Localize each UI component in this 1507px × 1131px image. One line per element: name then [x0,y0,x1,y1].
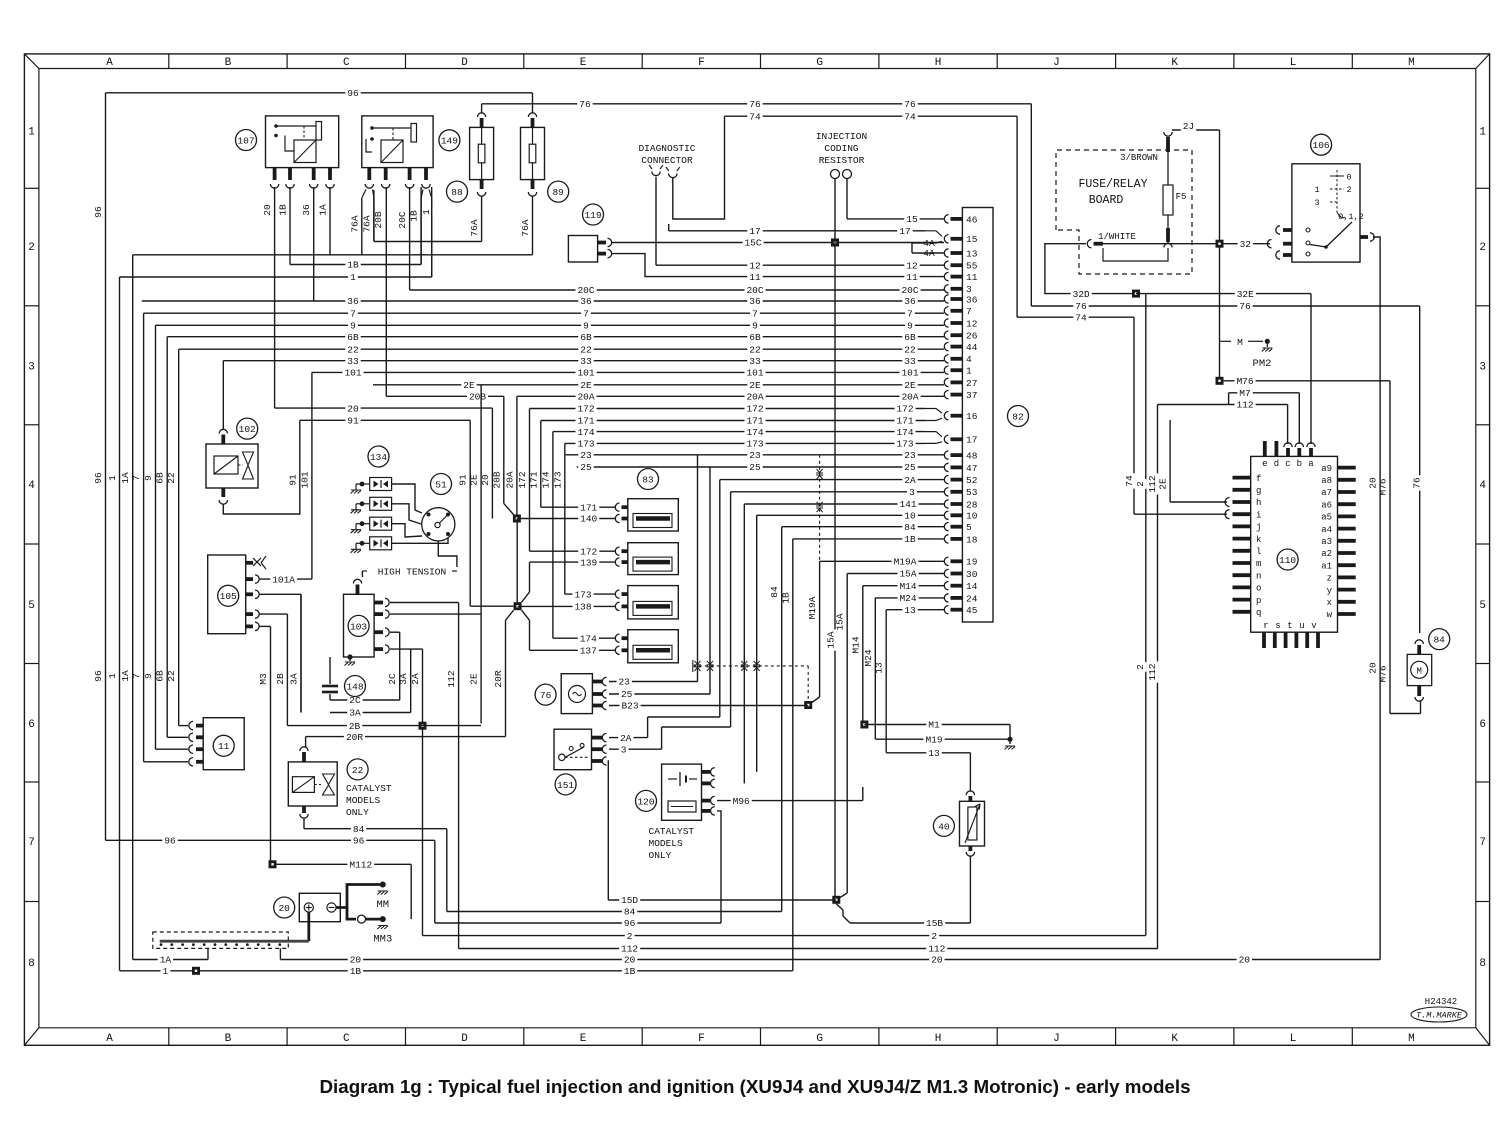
svg-text:CATALYST: CATALYST [649,826,695,837]
svg-text:M: M [1237,337,1243,348]
wire 20B riser [491,396,517,518]
svg-text:BOARD: BOARD [1089,194,1124,207]
svg-text:1: 1 [28,127,35,139]
diode row 1 [351,478,423,514]
svg-text:M14: M14 [899,581,916,592]
svg-text:76: 76 [904,99,916,110]
wire 174 injector row [553,633,615,644]
wire 13 row to ECU [886,605,944,616]
svg-text:174: 174 [540,471,551,488]
svg-text:102: 102 [239,424,256,435]
injector 3 [615,586,678,619]
relay 149 id [439,130,460,151]
svg-text:112: 112 [621,944,638,955]
wire 2E row [373,380,944,391]
diode row 2 [351,497,422,524]
fuse 88 [469,113,494,239]
svg-text:2B: 2B [349,721,361,732]
svg-text:25: 25 [749,462,761,473]
svg-text:76: 76 [579,99,591,110]
wire 20A riser [504,396,517,518]
wire 1B riser [780,539,793,971]
wire 173 injector row [565,589,615,600]
wire M76 vertical [1378,381,1421,714]
svg-text:96: 96 [347,88,359,99]
svg-text:33: 33 [904,356,916,367]
svg-text:20: 20 [931,955,943,966]
wire 20B row segment [386,391,504,402]
wire 2B row [287,721,481,732]
svg-text:h: h [1256,498,1261,508]
wire 1A bottom row [133,948,281,965]
svg-text:20R: 20R [346,732,363,743]
svg-text:L: L [1290,57,1297,69]
motor 84 body [1407,640,1432,701]
wires 22/6B/9/7 to component 11 [144,726,188,762]
diode row 3 [351,517,423,537]
capacitor 148 id [345,676,366,697]
wire 3A drop from 105 [289,594,302,712]
svg-text:u: u [1299,621,1304,631]
svg-text:1: 1 [107,673,118,679]
switch 106 pins [1274,226,1380,259]
diode row 4 [351,537,449,553]
svg-text:32D: 32D [1073,289,1090,300]
wire 3 row to ECU [731,487,944,498]
svg-text:139: 139 [580,557,597,568]
wire 15C row [611,238,944,249]
wire 91 row segment [300,415,470,426]
wire 11 row [611,254,944,283]
svg-text:15: 15 [966,234,978,245]
svg-text:A: A [106,1033,113,1045]
svg-text:6B: 6B [580,332,592,343]
svg-text:171: 171 [580,502,597,513]
svg-text:11: 11 [218,741,230,752]
svg-text:91: 91 [287,474,298,486]
svg-text:4A: 4A [923,248,935,259]
svg-text:H24342: H24342 [1425,997,1457,1007]
svg-text:6B: 6B [155,670,166,682]
wire 6B row [167,332,944,343]
svg-text:ONLY: ONLY [346,807,369,818]
svg-text:13: 13 [874,662,885,674]
svg-text:84: 84 [769,586,780,598]
injector 2 [615,543,678,575]
wire 174 riser [540,432,553,639]
wire 2A coil riser [410,649,423,936]
svg-text:B23: B23 [621,701,638,712]
svg-text:MM: MM [376,899,389,911]
svg-text:CODING: CODING [824,143,859,154]
wire injector ground trunk [516,519,518,607]
svg-text:17: 17 [966,435,977,446]
svg-text:171: 171 [577,416,594,427]
wire 20 riser [480,408,493,518]
wire 2E right to pin h [1158,420,1230,507]
svg-text:C: C [343,57,350,69]
svg-text:148: 148 [346,681,363,692]
svg-text:36: 36 [966,294,978,305]
svg-text:6B: 6B [904,332,916,343]
svg-text:2C: 2C [387,673,398,685]
svg-text:27: 27 [966,378,977,389]
svg-text:15D: 15D [621,895,638,906]
wire 112 riser from coil [446,603,459,949]
svg-text:b: b [1297,459,1302,469]
svg-text:172: 172 [517,471,528,488]
svg-text:171: 171 [746,416,763,427]
svg-text:Diagram 1g : Typical fuel inje: Diagram 1g : Typical fuel injection and … [319,1076,1190,1097]
svg-text:171: 171 [896,416,913,427]
svg-text:88: 88 [451,187,463,198]
svg-text:20R: 20R [493,670,504,687]
svg-text:G: G [816,57,823,69]
svg-text:3: 3 [621,744,627,755]
svg-text:6: 6 [1479,719,1486,731]
svg-text:8: 8 [1479,958,1486,970]
junction 32/2J [1216,240,1224,248]
svg-text:15: 15 [906,214,918,225]
svg-text:2A: 2A [620,733,632,744]
wire M19A row [820,556,944,567]
svg-text:173: 173 [552,471,563,488]
svg-text:173: 173 [746,439,763,450]
sensor 40 body [960,791,985,856]
svg-text:G: G [816,1033,823,1045]
svg-text:96: 96 [93,670,104,682]
junction 15C / coding resistor [831,239,839,247]
svg-text:110: 110 [1279,555,1296,566]
wire 173 riser [552,443,565,594]
svg-text:76: 76 [749,99,761,110]
connector 110 right pins [1321,464,1356,620]
svg-text:1B: 1B [278,204,289,216]
svg-text:s: s [1275,621,1280,631]
svg-text:20B: 20B [469,392,486,403]
svg-text:T.M.MARKE: T.M.MARKE [1416,1011,1463,1021]
diagnostic connector [638,143,695,178]
svg-text:J: J [1053,57,1060,69]
svg-text:M1: M1 [928,720,940,731]
svg-text:11: 11 [906,272,918,283]
svg-text:11: 11 [966,272,978,283]
wire 2B drop from 105 [275,614,288,726]
wire 137 branch [522,610,530,650]
grid numbers left and right [24,127,1489,970]
svg-text:140: 140 [580,514,597,525]
svg-text:82: 82 [1012,411,1024,422]
wire 173 row [565,438,925,449]
wire 76 vertical right [1412,475,1423,490]
svg-text:2: 2 [1479,242,1486,254]
wire 36 row [142,296,944,307]
svg-text:20A: 20A [746,392,763,403]
wire M96 row [717,787,863,807]
svg-text:172: 172 [746,404,763,415]
wire 15D bottom row [608,895,836,906]
svg-text:c: c [1285,459,1290,469]
earth strip connector [153,932,309,948]
svg-text:K: K [1171,1033,1178,1045]
svg-text:20: 20 [1368,662,1379,674]
connector 110 left pins [1233,474,1262,618]
junction injector supply [513,515,521,523]
fuse 89 [520,113,545,239]
svg-text:32: 32 [1240,239,1252,250]
wire M24 drop [863,598,876,739]
svg-text:137: 137 [580,646,597,657]
wire 138 injector row [518,601,615,612]
svg-text:74: 74 [749,111,761,122]
wire 15A row [847,569,944,580]
svg-text:M7: M7 [1239,388,1250,399]
relay 149 body [362,116,433,168]
svg-text:g: g [1256,486,1261,496]
T.M.MARKE logo [1411,1007,1467,1022]
wire 4A rows [912,238,944,259]
svg-text:4: 4 [28,480,35,492]
wire 15 from coding resistor [846,179,848,219]
svg-text:16: 16 [966,411,978,422]
wire coil pin4 to 3A [390,648,423,650]
wire 2A row to ECU [720,475,944,486]
svg-text:36: 36 [580,296,592,307]
svg-text:1B: 1B [409,210,420,222]
connector 119 id [583,204,604,225]
svg-text:22: 22 [352,765,364,776]
svg-text:40: 40 [938,821,950,832]
valve 22 id [347,759,368,780]
valve 22 body [288,747,337,818]
wire 23 row [566,450,944,461]
ECU connector 82 body [962,208,993,623]
wire 172 injector row [530,546,616,557]
wire 84 row 7 [304,824,447,912]
sensor 76 id [535,684,556,705]
junction 15A/15D [832,896,840,904]
injection coding resistor [816,131,867,179]
svg-text:C: C [343,1033,350,1045]
wire 1 row [120,272,432,283]
svg-text:1B: 1B [780,592,791,604]
svg-text:F5: F5 [1176,192,1187,202]
svg-text:o: o [1256,584,1261,594]
junction 32D/2 [1132,290,1140,298]
component 120 body [662,764,715,820]
svg-text:M: M [1408,1033,1415,1045]
svg-text:1A: 1A [120,670,131,682]
wire 2 long vertical [1135,294,1146,936]
svg-text:1/WHITE: 1/WHITE [1098,232,1136,242]
svg-text:17: 17 [749,226,760,237]
svg-text:7: 7 [1479,837,1486,849]
svg-text:1: 1 [350,272,356,283]
svg-text:20: 20 [347,403,359,414]
svg-text:25: 25 [580,462,592,473]
wire 172 riser [517,409,530,552]
svg-text:2J: 2J [1183,121,1194,132]
svg-text:M: M [1416,667,1421,677]
svg-text:112: 112 [446,670,457,687]
svg-text:20: 20 [480,474,491,486]
wire 2J [1172,121,1220,381]
svg-text:1A: 1A [160,955,172,966]
svg-text:a9: a9 [1321,464,1332,474]
svg-text:M76: M76 [1236,376,1253,387]
ground PM2 [1220,337,1273,370]
wire 25 riser to sensor 76 [707,467,714,694]
svg-text:20C: 20C [746,285,763,296]
svg-text:r: r [1263,621,1268,631]
svg-text:7: 7 [350,308,356,319]
svg-text:134: 134 [370,452,387,463]
svg-text:112: 112 [1147,663,1158,680]
svg-text:4: 4 [966,354,972,365]
svg-text:7: 7 [583,308,589,319]
svg-text:106: 106 [1313,140,1330,151]
svg-text:101A: 101A [272,574,295,585]
svg-text:37: 37 [966,390,977,401]
svg-text:p: p [1256,596,1261,606]
svg-text:52: 52 [966,475,978,486]
wire 10 riser [753,515,760,772]
catalyst models only text 22 [346,783,392,818]
wire 33 row [223,356,944,367]
svg-text:9: 9 [907,321,913,332]
wire M112 row [273,859,412,919]
wire 139 branch [522,562,530,602]
wire 1A left vertical [120,255,133,960]
svg-text:30: 30 [966,569,978,580]
ECU pins [944,214,977,616]
svg-text:96: 96 [164,836,176,847]
svg-text:36: 36 [347,296,359,307]
svg-text:w: w [1327,610,1333,620]
svg-text:23: 23 [749,450,761,461]
junction M112/M3 [269,860,277,868]
svg-text:20: 20 [1368,477,1379,489]
svg-text:1A: 1A [120,472,131,484]
wire 15B from sensor 40 [836,856,970,930]
svg-text:20A: 20A [901,392,918,403]
wire 96 left vertical [93,93,106,841]
svg-text:22: 22 [347,344,359,355]
wire coil pin3 to 2C [390,631,400,633]
svg-text:9: 9 [752,321,758,332]
svg-text:172: 172 [580,546,597,557]
wire 10 row to ECU [757,510,944,521]
wire 96 row 7 [106,835,435,923]
wire 33 to solenoid 102 [222,361,224,430]
wire 2E riser [469,385,482,724]
svg-text:10: 10 [966,511,978,522]
wire 3A riser and row [330,649,411,719]
earth lead MM3 [347,908,392,946]
ECU pin merge symbols [925,231,942,444]
wire 32E row [1136,289,1311,444]
wire 74 [725,111,1228,514]
svg-text:3: 3 [1479,362,1486,374]
svg-text:22: 22 [904,344,916,355]
svg-text:HIGH TENSION: HIGH TENSION [378,567,446,578]
svg-text:PM2: PM2 [1253,358,1272,370]
wire 9 row [156,320,945,331]
switch 151 id [555,774,576,795]
svg-text:x: x [1327,598,1332,608]
wire 171 injector row [541,502,615,513]
junction injector ground [514,602,522,610]
svg-text:48: 48 [966,451,978,462]
fuse relay board dashed box [1056,150,1192,274]
svg-text:101: 101 [746,368,763,379]
wire 96 riser from 120 [717,811,721,923]
svg-text:173: 173 [896,439,913,450]
wire 84 row to ECU [782,522,944,533]
svg-text:112: 112 [928,944,945,955]
wire 17 row [669,224,925,237]
svg-text:M76: M76 [1378,478,1389,495]
svg-text:36: 36 [301,204,312,216]
svg-text:22: 22 [749,344,761,355]
wire 1A row to fuse 89 [133,196,533,255]
wire 13 drop [874,610,887,753]
svg-text:33: 33 [580,356,592,367]
wire 20A row segment [517,391,944,402]
wire 172 row [530,404,926,415]
svg-text:z: z [1327,574,1332,584]
svg-text:105: 105 [220,591,237,602]
wire 139 injector row [530,557,616,568]
wire coil pin2 to 2E [390,613,481,615]
wire 15A drop [826,574,848,900]
ignition switch 106 id [1311,134,1332,155]
wire 32 row [1087,239,1271,250]
svg-text:20C: 20C [901,285,918,296]
wire B23 row [609,701,808,712]
wire 2C riser and row [330,632,400,706]
svg-text:D: D [461,57,468,69]
svg-text:M24: M24 [899,593,916,604]
svg-text:36: 36 [904,296,916,307]
svg-text:0,1,2: 0,1,2 [1338,212,1364,222]
wire M7 row [1229,388,1300,444]
svg-text:26: 26 [966,331,978,342]
svg-text:6B: 6B [155,472,166,484]
junction M76/2J [1216,377,1224,385]
svg-text:74: 74 [1075,312,1087,323]
svg-text:2: 2 [1135,664,1146,670]
svg-text:1: 1 [1314,185,1319,195]
svg-text:91: 91 [458,474,469,486]
wire M76 row [1220,376,1391,387]
svg-text:12: 12 [749,260,761,271]
wire M14 drop [850,586,863,725]
svg-text:101: 101 [577,368,594,379]
svg-text:141: 141 [899,499,916,510]
svg-text:H: H [935,1033,942,1045]
svg-text:13: 13 [928,748,940,759]
svg-text:84: 84 [353,824,365,835]
wire 101 riser [287,372,312,579]
svg-text:7: 7 [131,475,142,481]
svg-text:k: k [1256,535,1261,545]
svg-text:20B: 20B [373,211,384,228]
svg-text:96: 96 [353,836,365,847]
svg-text:E: E [580,57,587,69]
wire 140 injector row [517,514,615,525]
svg-text:11: 11 [749,272,761,283]
